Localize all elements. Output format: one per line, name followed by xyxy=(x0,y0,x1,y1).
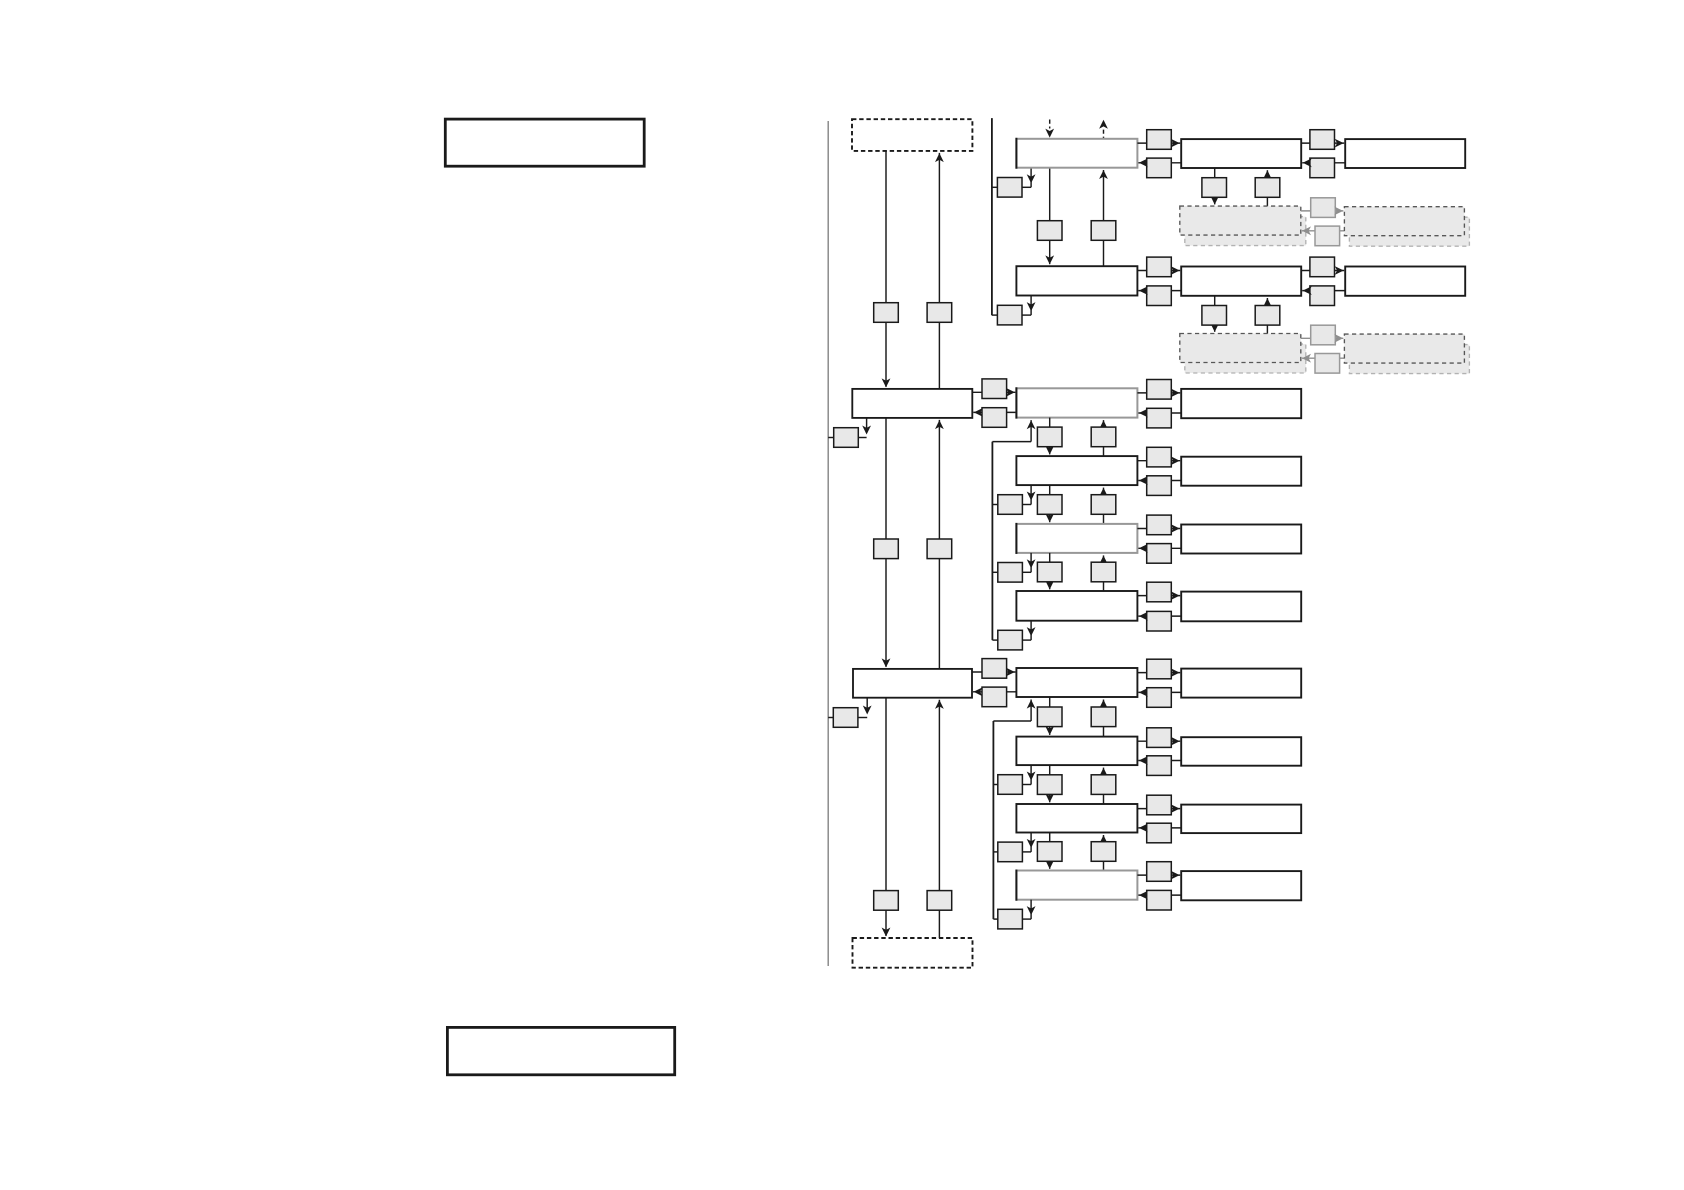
arrowhead xyxy=(974,687,983,696)
menu box S1 xyxy=(1016,668,1137,697)
key button xyxy=(982,687,1007,707)
arrowhead xyxy=(1171,804,1180,813)
wire xyxy=(1137,808,1180,810)
wire xyxy=(1103,420,1105,456)
wire xyxy=(1137,595,1180,597)
arrowhead xyxy=(862,426,871,435)
wire xyxy=(1214,168,1216,204)
wire xyxy=(992,639,997,641)
arrowhead xyxy=(1171,737,1180,746)
menu box G1-S1 xyxy=(1016,138,1137,169)
dashed screen box G1-D2 row1 shadow xyxy=(1349,217,1469,246)
wire xyxy=(1266,298,1268,334)
key button xyxy=(982,408,1007,428)
key button down xyxy=(1202,306,1227,326)
wire xyxy=(993,851,997,853)
arrowhead xyxy=(863,706,872,715)
dashed screen box G1-D1 row1 xyxy=(1180,206,1301,235)
key button xyxy=(1147,728,1172,748)
wire xyxy=(1138,412,1181,414)
menu box G1-R1 xyxy=(1181,139,1301,168)
key button xyxy=(982,659,1007,679)
menu box R3 xyxy=(1181,805,1301,834)
wire dashed return xyxy=(1103,130,1105,139)
wire dashed entry xyxy=(1049,120,1051,129)
key button exit xyxy=(997,178,1022,198)
arrowhead xyxy=(1302,354,1311,363)
arrowhead xyxy=(1171,871,1180,880)
key button xyxy=(1147,544,1172,564)
key button xyxy=(1147,408,1172,428)
wire xyxy=(1302,290,1345,292)
arrowhead xyxy=(1027,839,1036,848)
wire xyxy=(1301,142,1344,144)
wire xyxy=(993,720,1031,722)
page spine rule xyxy=(827,121,829,966)
wire xyxy=(1137,740,1180,742)
arrowhead xyxy=(1139,158,1148,167)
arrowhead xyxy=(1027,627,1036,636)
wire xyxy=(1030,700,1032,722)
menu box R4 xyxy=(1181,871,1301,900)
key button down xyxy=(1037,775,1062,795)
key button down xyxy=(874,303,899,323)
arrowhead xyxy=(1045,860,1054,869)
dashed screen box G1-D1 row2 shadow xyxy=(1185,344,1306,373)
dashed node bottom xyxy=(853,938,973,968)
key button xyxy=(1310,130,1335,150)
wire xyxy=(1049,833,1051,869)
wire exit M2 xyxy=(828,437,834,439)
arrowhead xyxy=(1171,591,1180,600)
key button up xyxy=(1091,427,1116,447)
wire xyxy=(1049,485,1051,522)
arrowhead xyxy=(1139,688,1148,697)
key button gray xyxy=(1311,198,1336,218)
wire xyxy=(1137,874,1180,876)
wire xyxy=(1103,700,1105,737)
arrowhead xyxy=(1099,556,1108,565)
key button up xyxy=(927,539,952,559)
menu box S3 xyxy=(1016,523,1137,554)
wire xyxy=(973,411,1016,413)
menu box R2 xyxy=(1181,457,1301,486)
wire exit M3 xyxy=(828,717,833,719)
arrowhead xyxy=(882,378,891,387)
dashed screen box G1-D1 row2 xyxy=(1180,334,1301,363)
menu box S4 xyxy=(1016,870,1137,901)
wire gray xyxy=(1302,357,1344,359)
arrowhead xyxy=(935,153,944,162)
key button xyxy=(982,379,1007,399)
key button down xyxy=(1037,842,1062,862)
arrowhead xyxy=(1099,170,1108,179)
arrowhead xyxy=(1027,420,1036,429)
arrowhead xyxy=(1139,612,1148,621)
arrowhead xyxy=(1027,906,1036,915)
wire main up line xyxy=(938,153,940,389)
arrowhead xyxy=(1027,302,1036,311)
key button down xyxy=(1037,221,1062,241)
arrowhead xyxy=(1027,772,1036,781)
key button gray xyxy=(1315,354,1340,374)
wire xyxy=(1138,480,1181,482)
wire xyxy=(972,391,1015,393)
wire xyxy=(992,504,997,506)
key button exit xyxy=(998,842,1023,862)
key button down xyxy=(874,891,899,911)
arrowhead xyxy=(1045,794,1054,803)
group 3 submenu column xyxy=(972,659,1301,929)
wire xyxy=(866,698,868,713)
wire main up line xyxy=(938,420,940,669)
key button gray xyxy=(1315,226,1340,246)
group 2 submenu column xyxy=(972,379,1301,650)
key button down xyxy=(1037,562,1062,582)
wire xyxy=(1022,639,1031,641)
arrowhead xyxy=(1210,196,1219,205)
wire xyxy=(1138,691,1181,693)
key button up xyxy=(927,891,952,911)
arrowhead xyxy=(1139,756,1148,765)
key button up xyxy=(1091,707,1116,727)
wire xyxy=(1030,485,1032,504)
wire gray xyxy=(1302,230,1344,232)
wire xyxy=(1301,270,1344,272)
wire xyxy=(972,671,1015,673)
key button up xyxy=(1091,221,1116,241)
wire xyxy=(1022,314,1031,316)
dashed screen box G1-D2 row1 xyxy=(1344,207,1464,236)
arrowhead xyxy=(1139,544,1148,553)
wire xyxy=(1022,784,1031,786)
menu box M3 xyxy=(853,669,972,698)
wire gray xyxy=(1301,210,1344,212)
arrowhead xyxy=(1027,559,1036,568)
wire xyxy=(1030,621,1032,640)
key button xyxy=(1310,257,1335,277)
arrowhead xyxy=(935,700,944,709)
wire xyxy=(1030,833,1032,852)
wire xyxy=(992,441,1031,443)
arrowhead xyxy=(1335,266,1344,275)
wire main up line xyxy=(938,700,940,938)
sub spine xyxy=(992,721,994,919)
key button xyxy=(1147,862,1172,882)
key button down xyxy=(874,539,899,559)
wire xyxy=(1138,894,1181,896)
key button up xyxy=(1091,562,1116,582)
arrowhead xyxy=(1139,286,1148,295)
arrowhead xyxy=(1263,298,1272,307)
wire xyxy=(1266,170,1268,206)
arrowhead xyxy=(1099,488,1108,497)
arrowhead xyxy=(1171,524,1180,533)
arrowhead xyxy=(1099,420,1108,429)
menu box S4 xyxy=(1016,591,1137,621)
key button xyxy=(1147,795,1172,815)
wire xyxy=(1137,392,1180,394)
menu box G1-T1 xyxy=(1345,139,1465,168)
wire xyxy=(1049,697,1051,735)
arrowhead xyxy=(1045,255,1054,264)
arrowhead xyxy=(1139,409,1148,418)
key button xyxy=(1147,257,1172,277)
wire xyxy=(993,784,997,786)
wire xyxy=(1049,418,1051,455)
key button exit M3 xyxy=(833,708,858,728)
arrowhead xyxy=(1099,768,1108,777)
wire xyxy=(1030,168,1032,188)
key button xyxy=(1147,447,1172,467)
key button xyxy=(1147,890,1172,910)
wire xyxy=(1214,296,1216,332)
sub spine group1 xyxy=(991,118,993,315)
key button up xyxy=(1091,842,1116,862)
wire xyxy=(1138,760,1181,762)
key button up xyxy=(1255,306,1280,326)
wire xyxy=(992,571,997,573)
key button exit xyxy=(998,495,1023,515)
wire xyxy=(1030,765,1032,784)
key button xyxy=(1147,582,1172,602)
key button up xyxy=(927,303,952,323)
wire xyxy=(866,418,868,433)
wire xyxy=(858,717,867,719)
arrowhead xyxy=(1171,266,1180,275)
key button exit xyxy=(998,563,1023,583)
wire main down line xyxy=(885,698,887,936)
menu box S1 xyxy=(1016,387,1137,418)
key button down xyxy=(1037,495,1062,515)
wire xyxy=(1022,504,1031,506)
key button xyxy=(1147,158,1172,178)
arrowhead xyxy=(1302,226,1311,235)
arrowhead xyxy=(1045,581,1054,590)
menu box R3 xyxy=(1181,525,1301,554)
wire xyxy=(1049,168,1051,265)
key button xyxy=(1147,823,1172,843)
menu box G1-T2 xyxy=(1345,267,1465,296)
key button exit xyxy=(998,775,1023,795)
arrowhead xyxy=(1027,492,1036,501)
key button xyxy=(1310,158,1335,178)
wire xyxy=(1103,835,1105,871)
wire xyxy=(1030,900,1032,919)
wire gray xyxy=(1301,337,1344,339)
arrowhead xyxy=(1139,891,1148,900)
legend box top-left xyxy=(445,119,644,166)
arrowhead xyxy=(1027,700,1036,709)
arrowhead xyxy=(1045,129,1054,138)
arrowhead xyxy=(1045,513,1054,522)
arrowhead xyxy=(935,420,944,429)
sub spine xyxy=(991,442,993,640)
wire xyxy=(1138,290,1181,292)
key button xyxy=(1147,756,1172,776)
key button down xyxy=(1037,707,1062,727)
wire xyxy=(1030,420,1032,442)
wire xyxy=(1103,768,1105,804)
wire xyxy=(1030,553,1032,572)
menu box R2 xyxy=(1181,737,1301,766)
menu box G1-S2 xyxy=(1016,266,1137,295)
wire xyxy=(1138,615,1181,617)
arrowhead xyxy=(974,408,983,417)
menu box S3 xyxy=(1016,804,1137,833)
dashed node top xyxy=(852,119,972,151)
wire xyxy=(973,691,1016,693)
arrowhead xyxy=(1334,334,1343,343)
arrowhead xyxy=(1263,170,1272,179)
wire xyxy=(1137,672,1180,674)
key button exit xyxy=(998,909,1023,929)
key button up xyxy=(1091,495,1116,515)
arrowhead xyxy=(1171,389,1180,398)
menu box S2 xyxy=(1016,737,1137,766)
key button xyxy=(1147,380,1172,400)
arrowhead xyxy=(1006,388,1015,397)
wire xyxy=(1049,765,1051,802)
key button xyxy=(1310,286,1335,306)
arrowhead xyxy=(1099,700,1108,709)
wire xyxy=(1138,162,1181,164)
arrowhead xyxy=(882,928,891,937)
wire xyxy=(858,437,866,439)
dashed screen box G1-D1 row1 shadow xyxy=(1185,217,1306,246)
key button xyxy=(1147,476,1172,496)
key button gray xyxy=(1311,325,1336,345)
wire xyxy=(1022,186,1031,188)
wire xyxy=(1103,488,1105,524)
dashed screen box G1-D2 row2 shadow xyxy=(1349,345,1469,374)
wire xyxy=(1103,170,1105,266)
arrowhead xyxy=(1171,668,1180,677)
key button up xyxy=(1255,178,1280,198)
arrowhead xyxy=(1027,174,1036,183)
key button exit xyxy=(997,305,1022,325)
arrowhead xyxy=(1139,476,1148,485)
wire xyxy=(993,918,997,920)
wire xyxy=(992,186,998,188)
menu box G1-R2 xyxy=(1181,267,1301,296)
key button up xyxy=(1091,775,1116,795)
key button xyxy=(1147,286,1172,306)
wire xyxy=(1137,270,1180,272)
wire xyxy=(1137,528,1180,530)
arrowhead xyxy=(1171,139,1180,148)
key button xyxy=(1147,688,1172,708)
arrowhead xyxy=(1210,323,1219,332)
wire xyxy=(1302,162,1345,164)
menu box R1 xyxy=(1181,669,1301,698)
arrowhead xyxy=(1335,139,1344,148)
wire xyxy=(1137,460,1180,462)
arrowhead xyxy=(1045,726,1054,735)
wire main down line xyxy=(885,151,887,387)
wire xyxy=(1030,296,1032,316)
legend box bottom-left xyxy=(447,1027,674,1074)
arrowhead xyxy=(1006,668,1015,677)
wire xyxy=(1103,555,1105,591)
wire main down line xyxy=(885,418,887,667)
wire xyxy=(1138,827,1181,829)
arrowhead xyxy=(1099,835,1108,844)
dashed screen box G1-D2 row2 xyxy=(1344,334,1464,363)
wire xyxy=(1138,547,1181,549)
wire xyxy=(1022,571,1031,573)
menu box S2 xyxy=(1016,456,1137,485)
wire xyxy=(992,314,998,316)
menu box R4 xyxy=(1181,592,1301,622)
arrowhead xyxy=(1139,824,1148,833)
wire xyxy=(1137,142,1180,144)
arrowhead xyxy=(1303,158,1312,167)
wire xyxy=(1022,851,1031,853)
arrowhead xyxy=(882,658,891,667)
wire xyxy=(1022,918,1031,920)
arrowhead xyxy=(1045,446,1054,455)
key button xyxy=(1147,659,1172,679)
key button xyxy=(1147,130,1172,150)
key button xyxy=(1147,515,1172,535)
key button xyxy=(1147,611,1172,631)
menu box M2 xyxy=(852,389,972,418)
key button exit xyxy=(998,630,1023,650)
key button down xyxy=(1202,178,1227,198)
menu box R1 xyxy=(1181,389,1301,418)
arrowhead xyxy=(1171,456,1180,465)
arrowhead xyxy=(1334,207,1343,216)
arrowhead xyxy=(1303,286,1312,295)
key button down xyxy=(1037,427,1062,447)
key button exit M2 xyxy=(834,428,859,448)
arrowhead xyxy=(1099,120,1108,129)
wire xyxy=(1049,553,1051,589)
